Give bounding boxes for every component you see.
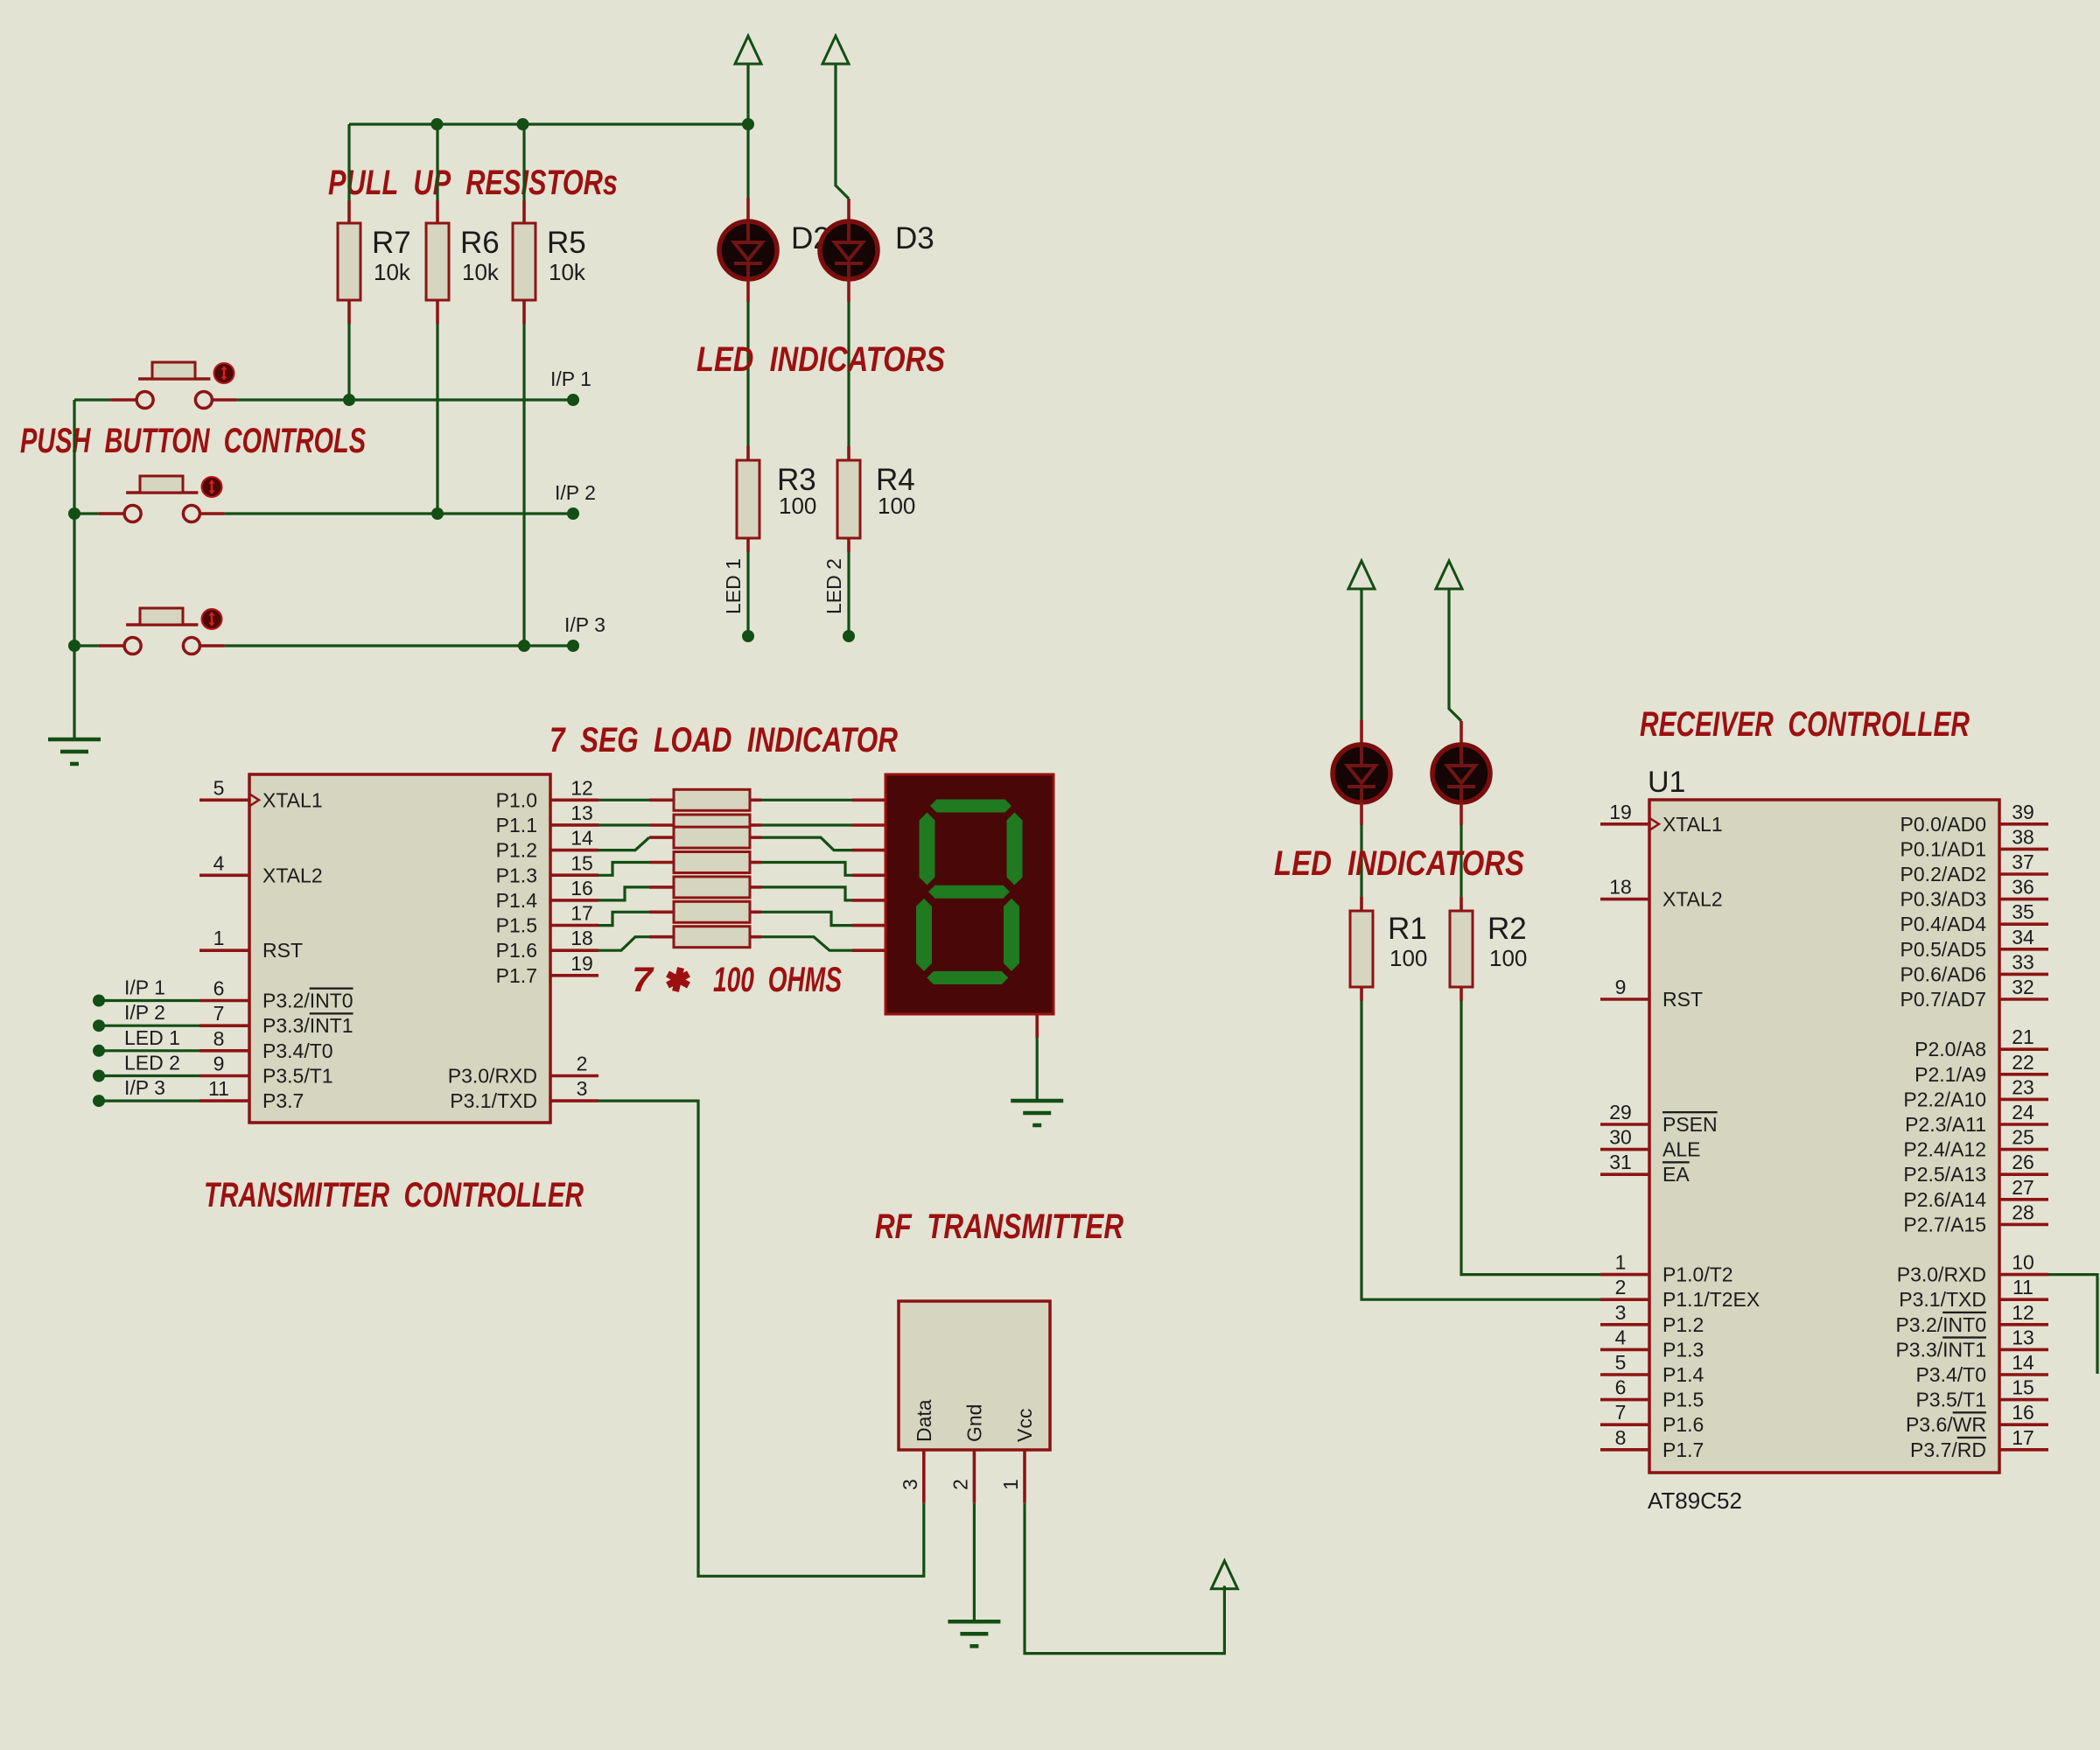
pin 21	[1999, 1047, 2048, 1051]
svg-text:RST: RST	[262, 939, 303, 962]
svg-text:I/P 2: I/P 2	[555, 481, 596, 504]
svg-text:P2.1/A9: P2.1/A9	[1914, 1063, 1986, 1086]
pin 18	[550, 948, 598, 952]
svg-text:30: 30	[1609, 1126, 1632, 1149]
svg-text:32: 32	[2012, 976, 2034, 998]
svg-text:P3.0/RXD: P3.0/RXD	[1897, 1263, 1986, 1286]
svg-text:U1: U1	[1648, 766, 1685, 799]
svg-text:15: 15	[570, 851, 593, 874]
svg-text:P0.3/AD3: P0.3/AD3	[1900, 888, 1986, 911]
seg C	[1004, 899, 1019, 971]
seg D	[927, 971, 1008, 984]
wire pin to pack	[598, 799, 649, 801]
wire D3 to R4	[847, 302, 850, 446]
svg-text:7: 7	[632, 961, 654, 999]
pin 36	[1999, 898, 2048, 901]
pin 12	[1999, 1323, 2048, 1326]
pin 3 (Data)	[922, 1450, 926, 1503]
svg-text:18: 18	[1609, 876, 1632, 899]
svg-text:P3.4/T0: P3.4/T0	[262, 1039, 333, 1062]
LED receiver 2	[1432, 745, 1490, 802]
svg-text:P1.6: P1.6	[1662, 1413, 1704, 1436]
svg-text:16: 16	[570, 877, 593, 899]
7-segment display	[885, 774, 1053, 1014]
junction bus-D2	[742, 118, 754, 130]
wire R3 to terminal LED 1	[746, 552, 749, 636]
wire R7 bottom	[347, 324, 350, 401]
svg-text:P1.1: P1.1	[496, 814, 537, 836]
svg-text:P1.2: P1.2	[1662, 1313, 1704, 1336]
seg B	[1007, 813, 1023, 885]
wire pin to pack	[598, 837, 649, 850]
wire I/P 1 to pin 6	[99, 999, 199, 1002]
svg-text:P0.7/AD7: P0.7/AD7	[1900, 988, 1986, 1011]
svg-text:RF TRANSMITTER: RF TRANSMITTER	[875, 1207, 1123, 1246]
pin 1	[199, 948, 249, 952]
svg-text:AT89C52: AT89C52	[1648, 1487, 1742, 1514]
svg-text:13: 13	[2012, 1326, 2034, 1348]
svg-text:Gnd: Gnd	[962, 1404, 985, 1442]
svg-text:P0.6/AD6: P0.6/AD6	[1900, 962, 1986, 985]
svg-text:P3.1/TXD: P3.1/TXD	[450, 1089, 537, 1112]
svg-text:P3.3/INT1: P3.3/INT1	[262, 1014, 353, 1037]
wire pin to pack	[598, 937, 649, 951]
resistor pack element 2 (100R)	[649, 823, 674, 827]
svg-text:P1.0/T2: P1.0/T2	[1662, 1263, 1733, 1286]
svg-text:8: 8	[1615, 1426, 1627, 1449]
svg-text:10k: 10k	[374, 259, 411, 285]
svg-text:P0.2/AD2: P0.2/AD2	[1900, 863, 1986, 885]
wire I/P 2 net	[225, 512, 573, 514]
pin 16	[550, 899, 598, 902]
svg-text:P3.0/RXD: P3.0/RXD	[448, 1065, 537, 1088]
svg-text:14: 14	[2012, 1351, 2034, 1374]
svg-text:11: 11	[208, 1077, 229, 1100]
svg-text:P0.4/AD4: P0.4/AD4	[1900, 913, 1987, 935]
svg-text:R7: R7	[372, 226, 411, 260]
push button SW3	[124, 608, 199, 654]
svg-text:27: 27	[2012, 1176, 2034, 1199]
svg-text:12: 12	[570, 776, 593, 799]
junction rail-row3	[68, 640, 80, 652]
resistor R1	[1360, 897, 1363, 911]
wire I/P 1 net	[237, 398, 573, 401]
pin 14	[550, 849, 598, 852]
pin 31	[1600, 1172, 1649, 1176]
wire LED 2 to pin 9	[99, 1074, 199, 1077]
svg-text:I/P 1: I/P 1	[124, 976, 165, 999]
pin 7	[199, 1024, 249, 1027]
svg-text:R5: R5	[547, 226, 586, 260]
wire LED1 to R1	[1360, 825, 1362, 897]
pin 39	[1999, 822, 2048, 826]
svg-text:P3.4/T0: P3.4/T0	[1915, 1363, 1986, 1386]
svg-text:TRANSMITTER CONTROLLER: TRANSMITTER CONTROLLER	[204, 1176, 584, 1214]
svg-text:XTAL2: XTAL2	[1662, 888, 1723, 911]
svg-text:P3.3/INT1: P3.3/INT1	[1895, 1338, 1986, 1361]
wire power to D2	[746, 64, 749, 198]
svg-text:P1.3: P1.3	[496, 864, 537, 886]
svg-text:11: 11	[2012, 1276, 2033, 1298]
svg-text:P1.7: P1.7	[1662, 1438, 1704, 1461]
svg-text:Data: Data	[913, 1399, 935, 1442]
svg-text:I/P 2: I/P 2	[124, 1001, 165, 1024]
svg-text:14: 14	[570, 827, 593, 850]
wire pack to display seg 3	[761, 837, 852, 850]
wire P3.0/RXD out	[2048, 1275, 2097, 1374]
pin 2 (Gnd)	[973, 1450, 976, 1503]
svg-text:15: 15	[2012, 1376, 2034, 1399]
svg-text:10k: 10k	[462, 259, 500, 285]
svg-text:P2.2/A10: P2.2/A10	[1903, 1088, 1986, 1110]
svg-text:23: 23	[2012, 1075, 2034, 1098]
svg-text:5: 5	[1615, 1351, 1627, 1374]
wire R6 top	[436, 124, 438, 200]
pin 4	[199, 873, 249, 877]
svg-text:28: 28	[2012, 1200, 2034, 1223]
svg-text:17: 17	[570, 902, 593, 925]
svg-text:19: 19	[1609, 801, 1632, 823]
svg-text:RECEIVER CONTROLLER: RECEIVER CONTROLLER	[1640, 705, 1970, 744]
svg-text:2: 2	[948, 1479, 971, 1490]
svg-text:P1.4: P1.4	[496, 889, 538, 912]
pin 5	[199, 798, 249, 801]
svg-text:XTAL2: XTAL2	[262, 864, 323, 886]
wire RF Vcc to power	[1025, 1503, 1224, 1654]
svg-text:LED 2: LED 2	[124, 1052, 180, 1074]
power arrow receiver LED2	[1436, 561, 1462, 589]
seg G	[928, 885, 1010, 899]
pin 22	[1999, 1073, 2048, 1076]
svg-text:XTAL1: XTAL1	[1662, 813, 1723, 836]
wire pack to display seg 6	[761, 912, 852, 925]
pin 9	[1600, 997, 1649, 1001]
svg-text:25: 25	[2012, 1126, 2034, 1149]
svg-text:P2.7/A15: P2.7/A15	[1903, 1213, 1986, 1235]
svg-text:19: 19	[570, 952, 593, 975]
pin 2	[550, 1074, 598, 1078]
svg-text:9: 9	[1615, 976, 1627, 998]
label *	[668, 968, 689, 991]
seg A	[930, 800, 1011, 813]
wire D2 to R3	[746, 302, 749, 446]
svg-text:P0.5/AD5: P0.5/AD5	[1900, 938, 1986, 961]
svg-text:10k: 10k	[549, 259, 586, 285]
svg-text:P2.5/A13: P2.5/A13	[1903, 1163, 1986, 1186]
svg-text:P3.2/INT0: P3.2/INT0	[262, 990, 353, 1012]
svg-text:2: 2	[577, 1053, 588, 1075]
svg-text:3: 3	[1615, 1301, 1627, 1324]
svg-text:I/P 3: I/P 3	[124, 1076, 165, 1099]
resistor pack element 5 (100R)	[649, 885, 674, 889]
svg-text:EA: EA	[1662, 1163, 1690, 1186]
power arrow RF Vcc	[1211, 1561, 1237, 1589]
svg-text:P1.7: P1.7	[496, 964, 537, 987]
wire TXD to RF Data	[598, 1101, 924, 1576]
pin 3	[1600, 1323, 1649, 1326]
ground 7-seg	[1011, 1101, 1063, 1125]
svg-text:LED 1: LED 1	[722, 558, 745, 614]
svg-text:5: 5	[213, 776, 225, 799]
IC U1 AT89C52	[1649, 800, 1999, 1473]
ground push buttons	[48, 739, 101, 764]
svg-text:1: 1	[1615, 1251, 1627, 1274]
svg-text:P3.7/RD: P3.7/RD	[1910, 1438, 1986, 1461]
wire R7 top	[347, 124, 350, 200]
resistor pack element 4 (100R)	[649, 861, 674, 864]
svg-text:P2.0/A8: P2.0/A8	[1914, 1038, 1986, 1060]
pin 37	[1999, 872, 2048, 876]
svg-text:P1.5: P1.5	[1662, 1389, 1704, 1411]
svg-text:P1.5: P1.5	[496, 914, 537, 937]
svg-text:3: 3	[899, 1479, 921, 1490]
pin 2	[1600, 1298, 1649, 1301]
svg-text:3: 3	[577, 1077, 588, 1100]
wire pack to display seg 1	[761, 799, 852, 801]
resistor pack element 7 (100R)	[649, 935, 674, 939]
pin 27	[1999, 1198, 2048, 1201]
svg-text:100: 100	[1389, 945, 1427, 971]
svg-text:22: 22	[2012, 1051, 2034, 1074]
svg-text:6: 6	[213, 977, 225, 1000]
wire pack to display seg 2	[761, 823, 852, 826]
svg-text:9: 9	[213, 1053, 225, 1075]
pin 16	[1999, 1423, 2048, 1426]
svg-text:D3: D3	[895, 221, 934, 255]
resistor R6	[436, 200, 439, 223]
svg-text:Vcc: Vcc	[1013, 1409, 1036, 1442]
pin 14	[1999, 1373, 2048, 1376]
pin 15	[550, 873, 598, 877]
wire pack to display seg 7	[761, 937, 852, 951]
svg-text:24: 24	[2012, 1101, 2034, 1123]
pin 5	[1600, 1373, 1649, 1376]
power arrow D2	[735, 36, 761, 64]
pin 1 (Vcc)	[1023, 1450, 1026, 1503]
pin 18	[1600, 898, 1649, 901]
XTAL1 clock chevron	[249, 794, 259, 806]
wire power to LED2	[1449, 589, 1461, 721]
LED D3	[820, 221, 878, 279]
svg-text:2: 2	[1615, 1276, 1627, 1298]
pin 35	[1999, 922, 2048, 926]
wire I/P 3 to pin 11	[99, 1099, 199, 1102]
svg-text:7: 7	[1615, 1401, 1627, 1424]
svg-text:P1.4: P1.4	[1662, 1363, 1704, 1386]
pin display common	[1035, 1014, 1039, 1038]
resistor R7	[347, 200, 351, 223]
svg-text:I/P 3: I/P 3	[564, 613, 605, 636]
svg-text:100: 100	[1489, 945, 1527, 971]
svg-text:1: 1	[213, 927, 225, 949]
svg-text:10: 10	[2012, 1251, 2034, 1274]
wire R4 to terminal LED 2	[847, 552, 850, 636]
pin 12	[550, 798, 598, 801]
wire pin to pack	[598, 912, 649, 925]
svg-text:36: 36	[2012, 876, 2034, 899]
RF transmitter module	[899, 1301, 1050, 1450]
svg-text:26: 26	[2012, 1151, 2034, 1173]
svg-text:6: 6	[1615, 1376, 1627, 1399]
junction bus-R6	[430, 118, 443, 130]
pin 32	[1999, 997, 2048, 1001]
junction bus-R5	[517, 118, 529, 130]
svg-text:8: 8	[213, 1027, 225, 1050]
svg-text:35: 35	[2012, 900, 2034, 923]
pin 15	[1999, 1398, 2048, 1402]
wire R2 to P1.0/T2	[1461, 1001, 1600, 1275]
wire R6 bottom	[436, 324, 438, 514]
svg-text:P3.5/T1: P3.5/T1	[1915, 1389, 1986, 1411]
svg-text:7: 7	[213, 1002, 225, 1025]
svg-text:4: 4	[213, 851, 225, 874]
LED receiver 1	[1333, 745, 1390, 802]
wire Vcc bus	[349, 122, 748, 125]
pin 13	[550, 823, 598, 827]
pin 38	[1999, 848, 2048, 851]
svg-text:39: 39	[2012, 801, 2034, 823]
svg-text:100: 100	[878, 493, 915, 519]
svg-text:I/P 1: I/P 1	[550, 367, 591, 390]
pin 13	[1999, 1348, 2048, 1352]
svg-text:21: 21	[2012, 1025, 2034, 1048]
pin 23	[1999, 1098, 2048, 1102]
pin 1	[1600, 1273, 1649, 1277]
pin 8	[1600, 1448, 1649, 1452]
seg F	[920, 813, 935, 885]
svg-text:7 SEG LOAD INDICATOR: 7 SEG LOAD INDICATOR	[549, 721, 898, 759]
junction R5-I/P3	[518, 640, 530, 652]
seg E	[916, 899, 932, 971]
svg-text:P1.6: P1.6	[496, 939, 537, 962]
pin 33	[1999, 973, 2048, 976]
power arrow D3	[822, 36, 849, 64]
svg-text:4: 4	[1615, 1326, 1627, 1348]
pin 11	[199, 1099, 249, 1102]
wire LED 1 to pin 8	[99, 1049, 199, 1052]
wire power to D3	[836, 64, 849, 199]
resistor R4	[847, 446, 850, 460]
svg-text:PUSH BUTTON CONTROLS: PUSH BUTTON CONTROLS	[20, 422, 366, 460]
push button SW2	[124, 476, 199, 522]
svg-text:29: 29	[1609, 1101, 1632, 1123]
svg-text:P2.6/A14: P2.6/A14	[1903, 1188, 1986, 1211]
pin 4	[1600, 1348, 1649, 1352]
svg-text:P1.0: P1.0	[496, 788, 537, 811]
svg-text:LED 2: LED 2	[822, 558, 845, 614]
power arrow receiver LED1	[1348, 561, 1375, 589]
wire pack to display seg 4	[761, 863, 852, 876]
junction rail-row2	[68, 507, 80, 520]
svg-text:37: 37	[2012, 850, 2034, 873]
wire R5 bottom	[522, 324, 525, 646]
pin 28	[1999, 1223, 2048, 1227]
svg-text:31: 31	[1609, 1151, 1632, 1173]
svg-text:XTAL1: XTAL1	[262, 788, 323, 811]
resistor R3	[746, 446, 750, 460]
svg-text:P3.5/T1: P3.5/T1	[262, 1065, 333, 1088]
svg-text:P3.6/WR: P3.6/WR	[1906, 1413, 1986, 1436]
svg-text:PULL UP RESISTORs: PULL UP RESISTORs	[328, 164, 618, 202]
pin 17	[550, 924, 598, 927]
svg-text:P2.4/A12: P2.4/A12	[1903, 1138, 1986, 1161]
svg-text:33: 33	[2012, 950, 2034, 973]
wire row2 left	[74, 512, 99, 514]
pin 25	[1999, 1148, 2048, 1151]
svg-text:P3.2/INT0: P3.2/INT0	[1895, 1313, 1986, 1336]
pin 24	[1999, 1123, 2048, 1126]
resistor pack element 1 (100R)	[649, 798, 674, 801]
wire R1 to P1.1/T2EX	[1361, 1001, 1600, 1299]
svg-text:LED 1: LED 1	[124, 1026, 180, 1049]
svg-text:ALE: ALE	[1662, 1138, 1700, 1161]
svg-text:1: 1	[999, 1479, 1022, 1490]
pin 8	[199, 1049, 249, 1053]
pin 34	[1999, 948, 2048, 951]
svg-text:P3.1/TXD: P3.1/TXD	[1899, 1288, 1986, 1311]
svg-text:P1.2: P1.2	[496, 839, 537, 862]
svg-text:R1: R1	[1388, 912, 1427, 946]
pin 10	[1999, 1273, 2048, 1277]
pin 19	[550, 974, 598, 977]
wire R5 top	[522, 124, 525, 200]
wire power to LED1	[1360, 589, 1362, 720]
svg-text:RST: RST	[1662, 988, 1703, 1011]
svg-text:100 OHMS: 100 OHMS	[713, 961, 842, 999]
push button SW1	[136, 362, 212, 409]
wire row1 left	[74, 398, 111, 401]
svg-text:R6: R6	[460, 226, 500, 260]
svg-text:R2: R2	[1487, 912, 1527, 946]
svg-text:12: 12	[2012, 1301, 2034, 1324]
resistor pack element 6 (100R)	[649, 911, 674, 914]
ground RF	[948, 1621, 1000, 1646]
pin 9	[199, 1074, 249, 1078]
junction R7-I/P1	[343, 394, 355, 406]
pin 6	[1600, 1398, 1649, 1402]
wire LED2 to R2	[1459, 825, 1462, 897]
svg-text:13: 13	[570, 801, 593, 824]
pin 19	[1600, 822, 1649, 826]
svg-text:P1.1/T2EX: P1.1/T2EX	[1662, 1288, 1760, 1311]
pin 30	[1600, 1148, 1649, 1151]
resistor pack element 3 (100R)	[649, 836, 674, 839]
pin 7	[1600, 1423, 1649, 1426]
wire pin to pack	[598, 887, 649, 900]
pin 11	[1999, 1298, 2048, 1301]
junction R6-I/P2	[431, 507, 444, 520]
svg-text:P0.0/AD0: P0.0/AD0	[1900, 813, 1986, 836]
svg-text:P2.3/A11: P2.3/A11	[1905, 1113, 1986, 1136]
wire I/P 2 to pin 7	[99, 1025, 199, 1027]
svg-text:P0.1/AD1: P0.1/AD1	[1900, 837, 1986, 860]
pin 17	[1999, 1448, 2048, 1452]
svg-text:17: 17	[2012, 1426, 2034, 1449]
XTAL1 clock chevron	[1649, 818, 1659, 830]
wire row3 left	[74, 644, 99, 647]
pin 3	[550, 1099, 598, 1102]
resistor R2	[1459, 897, 1463, 911]
svg-text:100: 100	[779, 493, 816, 519]
wire pack to display seg 5	[761, 887, 852, 900]
svg-text:LED INDICATORS: LED INDICATORS	[1274, 844, 1524, 883]
wire I/P 3 net	[225, 644, 573, 647]
svg-text:16: 16	[2012, 1401, 2034, 1424]
wire pin to pack	[598, 823, 649, 826]
wire RF Gnd	[973, 1503, 976, 1622]
svg-text:34: 34	[2012, 926, 2034, 948]
wire pin to pack	[598, 863, 649, 876]
